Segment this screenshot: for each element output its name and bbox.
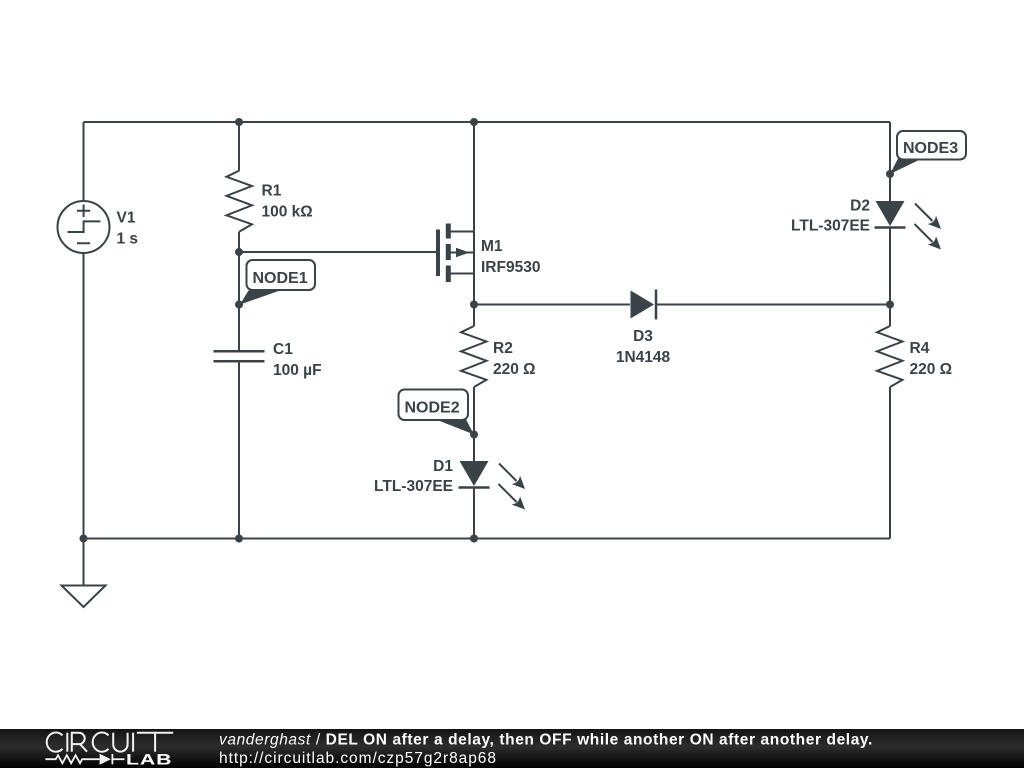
LED D2 bbox=[875, 201, 942, 250]
wire R4 top bbox=[889, 305, 891, 327]
node D1 bottom junction dot bbox=[470, 535, 478, 543]
svg-text:R1: R1 bbox=[262, 183, 282, 200]
wire M1 drain column bbox=[473, 122, 475, 232]
label C1 value bbox=[273, 341, 322, 379]
LED D1 bbox=[459, 461, 526, 510]
capacitor C1 bbox=[214, 351, 265, 361]
svg-text:D2: D2 bbox=[850, 198, 870, 215]
node NODE1 dot bbox=[235, 301, 243, 309]
CircuitLab logo resistor-diode bbox=[45, 754, 124, 764]
svg-text:IRF9530: IRF9530 bbox=[481, 259, 540, 276]
svg-text:V1: V1 bbox=[117, 210, 136, 227]
node NODE2 callout bbox=[399, 390, 475, 435]
voltage source V1 bbox=[58, 201, 110, 253]
node NODE3 callout bbox=[890, 131, 966, 174]
node D3/R4 junction dot bbox=[886, 301, 894, 309]
label D3 value bbox=[616, 328, 671, 366]
wire left rail top (to V1) bbox=[83, 122, 85, 201]
node NODE1 callout bbox=[240, 260, 315, 305]
svg-text:1 s: 1 s bbox=[117, 231, 139, 248]
label V1 value bbox=[117, 210, 139, 248]
resistor R1 bbox=[227, 171, 253, 232]
svg-text:220 Ω: 220 Ω bbox=[910, 361, 953, 378]
transistor M1 (PMOS) bbox=[438, 224, 474, 283]
svg-text:NODE3: NODE3 bbox=[903, 140, 958, 157]
label R4 value bbox=[910, 340, 953, 378]
wire left rail bottom (V1 to bottom rail) bbox=[83, 253, 85, 539]
wire node to D3 anode bbox=[474, 304, 630, 306]
node NODE3 dot bbox=[886, 170, 894, 178]
M1 body arrow bbox=[456, 248, 470, 258]
svg-text:M1: M1 bbox=[481, 238, 503, 255]
wire R1 bottom to NODE1 to C1 bbox=[238, 232, 240, 352]
svg-text:D3: D3 bbox=[633, 328, 653, 345]
svg-text:R2: R2 bbox=[493, 340, 513, 357]
wire top rail bbox=[84, 121, 891, 123]
wire bottom rail bbox=[84, 538, 891, 540]
svg-text:LAB: LAB bbox=[126, 751, 172, 768]
svg-text:http://circuitlab.com/czp57g2r: http://circuitlab.com/czp57g2r8ap68 bbox=[219, 750, 497, 767]
svg-text:LTL-307EE: LTL-307EE bbox=[791, 218, 870, 235]
wire R1 top bbox=[238, 122, 240, 171]
svg-text:220 Ω: 220 Ω bbox=[493, 361, 536, 378]
label M1 value bbox=[481, 238, 540, 276]
wire gate bbox=[239, 251, 438, 253]
footer bar bbox=[0, 729, 1024, 768]
ground bbox=[62, 539, 106, 608]
svg-text:NODE2: NODE2 bbox=[405, 400, 460, 417]
wire D3 cathode to right node bbox=[656, 304, 890, 306]
node C1 bottom junction dot bbox=[235, 535, 243, 543]
svg-text:D1: D1 bbox=[433, 458, 453, 475]
label D1 value bbox=[374, 458, 453, 495]
wire R2 bottom to NODE2 to D1 bbox=[473, 387, 475, 461]
label R2 value bbox=[493, 340, 536, 378]
wire R2 top bbox=[473, 305, 475, 327]
CircuitLab logo CIRCUIT bbox=[47, 733, 173, 752]
svg-text:R4: R4 bbox=[910, 340, 930, 357]
wire D2 cathode to node bbox=[889, 227, 891, 305]
node NODE2 dot bbox=[470, 431, 478, 439]
svg-text:1N4148: 1N4148 bbox=[616, 349, 671, 366]
svg-text:C1: C1 bbox=[273, 341, 293, 358]
node junction dot (R1 bottom / gate) bbox=[235, 248, 243, 256]
label D2 value bbox=[791, 198, 870, 235]
wire D1 cathode to bottom rail bbox=[473, 488, 475, 539]
wire M1 source column to node bbox=[473, 274, 475, 305]
wire C1 bottom bbox=[238, 362, 240, 539]
svg-text:100 µF: 100 µF bbox=[273, 362, 322, 379]
resistor R2 bbox=[461, 326, 487, 387]
node junction dot (top M1) bbox=[470, 118, 478, 126]
label R1 value bbox=[262, 183, 313, 221]
node bottom-left junction dot bbox=[80, 535, 88, 543]
wire right rail bottom (R4 to bottom rail) bbox=[889, 387, 891, 539]
svg-text:100 kΩ: 100 kΩ bbox=[262, 204, 313, 221]
diode D3 bbox=[631, 290, 657, 320]
svg-text:vanderghast / DEL ON after a d: vanderghast / DEL ON after a delay, then… bbox=[219, 732, 873, 749]
node M1 source junction dot bbox=[470, 301, 478, 309]
node A junction dot (top R1) bbox=[235, 118, 243, 126]
svg-text:NODE1: NODE1 bbox=[253, 270, 308, 287]
svg-text:LTL-307EE: LTL-307EE bbox=[374, 478, 453, 495]
wire right rail top (to NODE3 / D2) bbox=[889, 122, 891, 201]
resistor R4 bbox=[877, 326, 903, 387]
